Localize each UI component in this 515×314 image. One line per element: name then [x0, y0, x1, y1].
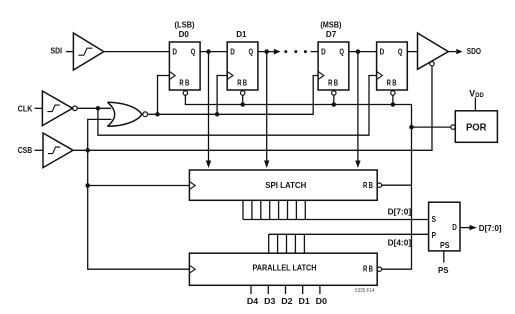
wire RB drop U1 — [242, 95, 244, 104]
svg-text:B: B — [369, 181, 373, 190]
dots shift register continuation — [284, 50, 307, 53]
svg-text:R: R — [387, 79, 391, 88]
block U10 mux PS box — [429, 202, 460, 251]
svg-text:D: D — [380, 47, 385, 56]
svg-text:CSB: CSB — [18, 146, 32, 155]
wire CLK input dash — [35, 107, 43, 109]
svg-text:P: P — [432, 231, 437, 240]
wire SDO out — [448, 51, 456, 53]
svg-text:Q: Q — [339, 47, 344, 56]
svg-text:B: B — [334, 79, 338, 88]
arrowhead Q1 into SPI latch — [264, 161, 269, 169]
junction NOR out node — [155, 112, 160, 117]
wire NOR output clock bus — [148, 76, 318, 115]
bubble U9 POR output — [451, 125, 455, 129]
junction RB D7 — [332, 102, 337, 107]
wire D1 clock riser — [217, 76, 227, 115]
svg-text:B: B — [392, 79, 396, 88]
bus ladder P to parallel latch — [269, 234, 305, 253]
block U9 POR box — [455, 111, 497, 143]
pin U7 clock triangle — [318, 72, 324, 80]
svg-text:D3: D3 — [264, 297, 276, 306]
svg-text:Q: Q — [398, 47, 403, 56]
svg-text:R: R — [363, 265, 367, 274]
svg-text:5335 F14: 5335 F14 — [355, 288, 375, 294]
svg-text:Q: Q — [191, 47, 196, 56]
pin U1 clock triangle — [227, 72, 233, 80]
junction RB D1 — [240, 102, 245, 107]
wire CSB to NOR input B — [88, 119, 112, 150]
wire RB bus — [185, 95, 411, 185]
wire Q7 drop to SPI latch — [357, 52, 359, 161]
wire D0 clock riser — [158, 76, 170, 115]
wire CSB to SDO enable — [73, 66, 432, 150]
svg-text:D0: D0 — [179, 30, 190, 39]
gate G1 NOR body — [108, 102, 143, 126]
svg-text:S: S — [432, 215, 437, 224]
wire mux D output — [460, 227, 470, 229]
arrowhead Q0 into SPI latch — [206, 161, 211, 169]
svg-text:D4: D4 — [247, 297, 259, 306]
wire D[4:0] bus to mux P — [269, 233, 429, 235]
pin X2 clock triangle — [189, 265, 195, 273]
flip-flop U8 output stage box — [377, 42, 408, 90]
wire D1 stub — [302, 285, 304, 294]
junction Q7 node — [356, 49, 361, 54]
wire Q0 to D1 — [200, 51, 227, 53]
svg-text:B: B — [185, 79, 189, 88]
wire D[7:0] bus to mux S — [243, 219, 429, 221]
pin U8 clock triangle — [377, 72, 383, 80]
svg-text:SPI LATCH: SPI LATCH — [265, 181, 306, 190]
wire SPI latch RB — [382, 184, 412, 186]
wire SDI to D0.D — [104, 51, 170, 53]
junction POR RB node — [409, 125, 414, 130]
svg-text:DD: DD — [475, 92, 484, 99]
svg-text:D7: D7 — [326, 30, 337, 39]
svg-text:B: B — [243, 79, 247, 88]
bubble U1 RB — [241, 91, 245, 95]
wire Q7 to U8.D — [349, 51, 377, 53]
wire dots to D7 — [311, 51, 319, 53]
svg-text:SDI: SDI — [51, 47, 63, 56]
pin U0 clock triangle — [169, 72, 175, 80]
arrowhead Q7 into SPI latch — [355, 161, 360, 169]
svg-text:CLK: CLK — [18, 104, 33, 113]
bubble U0 RB — [183, 91, 187, 95]
buffer A3 CSB schmitt triangle — [43, 133, 73, 168]
wire Q1 drop to SPI latch — [266, 52, 268, 161]
bubble X2 RB — [377, 267, 381, 271]
wire RB vertical to parallel latch — [382, 185, 412, 269]
junction D1 clock riser — [215, 112, 220, 117]
wire PS stub — [443, 251, 445, 263]
latch X1 SPI LATCH box — [189, 170, 377, 200]
buffer A2 CLK schmitt triangle — [42, 91, 72, 126]
svg-text:R: R — [328, 79, 332, 88]
wire D0 stub — [319, 285, 321, 294]
wire Q0 drop to SPI latch — [208, 52, 210, 161]
wire POR output — [412, 126, 451, 128]
svg-text:PS: PS — [440, 241, 450, 250]
wire U8.Q to SDO buffer — [407, 51, 418, 53]
svg-text:D[7:0]: D[7:0] — [479, 224, 502, 233]
svg-text:D: D — [172, 47, 177, 56]
junction Q0 node — [206, 49, 211, 54]
junction SPI clock branch — [85, 183, 90, 188]
buffer A4 SDO tristate triangle — [418, 33, 449, 69]
svg-text:D2: D2 — [281, 297, 293, 306]
wire D3 stub — [267, 285, 269, 294]
svg-text:D: D — [452, 223, 457, 232]
wire CLK down branch — [98, 76, 377, 136]
latch X2 PARALLEL LATCH box — [189, 253, 377, 285]
svg-text:PARALLEL LATCH: PARALLEL LATCH — [253, 264, 317, 273]
junction Q1 node — [264, 49, 269, 54]
svg-text:(MSB): (MSB) — [320, 21, 341, 30]
flip-flop U7 D7 box — [318, 42, 349, 90]
schmitt symbol A2 — [47, 105, 59, 112]
wire CSB input dash — [35, 149, 44, 151]
buffer A1 SDI schmitt triangle — [73, 33, 103, 70]
svg-text:SDO: SDO — [467, 47, 482, 56]
schmitt symbol A1 — [78, 48, 92, 55]
svg-text:D: D — [230, 47, 235, 56]
svg-text:D: D — [321, 47, 326, 56]
bus ladder SPI to S — [243, 200, 305, 219]
wire CSB down to latch clocks — [88, 150, 190, 269]
svg-text:(LSB): (LSB) — [175, 21, 195, 30]
svg-text:R: R — [179, 79, 183, 88]
svg-text:D1: D1 — [299, 297, 311, 306]
svg-text:D[4:0]: D[4:0] — [388, 238, 412, 247]
wire CLK to NOR input A — [77, 107, 111, 109]
svg-text:D1: D1 — [236, 30, 247, 39]
junction RB U8 — [391, 102, 396, 107]
wire D4 stub — [250, 285, 252, 294]
junction CLK node — [96, 106, 101, 111]
schmitt symbol A3 — [48, 147, 60, 154]
bubble G1 output — [143, 112, 148, 117]
svg-text:B: B — [369, 265, 373, 274]
wire RB drop U8 — [392, 95, 394, 104]
wire D2 stub — [285, 285, 287, 294]
pin X1 clock triangle — [189, 182, 195, 190]
bubble A4 enable — [430, 62, 434, 66]
arrowhead mux D out — [470, 225, 477, 230]
svg-text:Q: Q — [249, 47, 254, 56]
wire VDD to POR — [474, 98, 476, 111]
flip-flop U0 D0 box — [169, 42, 200, 90]
bubble U7 RB — [332, 91, 336, 95]
junction CSB node — [85, 148, 90, 153]
wire RB drop U7 — [333, 95, 335, 104]
bubble U8 RB — [391, 91, 395, 95]
arrowhead shift continuation — [274, 49, 281, 55]
flip-flop U1 D1 box — [227, 42, 258, 90]
wire SPI latch clock branch — [88, 185, 190, 187]
svg-text:POR: POR — [466, 122, 487, 133]
svg-text:D[7:0]: D[7:0] — [388, 208, 412, 217]
arrowhead SDO — [456, 49, 462, 54]
svg-text:D0: D0 — [316, 297, 328, 306]
wire SDI input dash — [66, 51, 73, 53]
svg-text:R: R — [237, 79, 241, 88]
svg-text:PS: PS — [438, 266, 449, 275]
wire Q1 stub — [258, 51, 274, 53]
svg-text:R: R — [363, 181, 367, 190]
bubble A2 inverter — [73, 106, 78, 111]
bubble X1 RB — [377, 183, 381, 187]
